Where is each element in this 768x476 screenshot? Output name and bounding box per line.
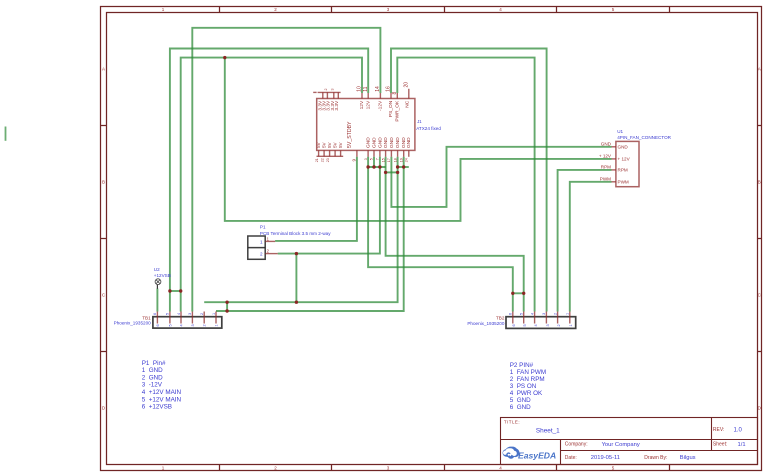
svg-text:4PIN_FAN_CONNECTOR: 4PIN_FAN_CONNECTOR xyxy=(617,135,671,140)
svg-text:5V: 5V xyxy=(327,141,332,148)
svg-text:6: 6 xyxy=(156,324,160,326)
J1 top pin stubs (10,11,14,16,8) xyxy=(362,89,409,99)
svg-text:6 GND: 6 GND xyxy=(510,404,531,411)
svg-text:4: 4 xyxy=(534,324,538,326)
wire 5VSB: ATX pin9 to P1 pin1 xyxy=(275,157,357,241)
J1 top pin numbers xyxy=(357,82,410,95)
wire GND: ATX gnd pin to TB2 pin6 xyxy=(368,157,513,312)
TB2 pin names inside xyxy=(512,324,573,326)
wire GND: ATX gnd pin to P1 pin2 xyxy=(278,157,380,254)
svg-text:Company:: Company: xyxy=(565,442,588,448)
terminal block TB2 body xyxy=(506,317,576,329)
J1 bottom-left 5V pin comb xyxy=(317,150,344,156)
P1 pin numbers xyxy=(267,236,270,253)
wire -12V net: ATX pin14 to TB1 pin3 xyxy=(192,28,380,312)
svg-text:9: 9 xyxy=(352,159,357,162)
svg-text:3 PS ON: 3 PS ON xyxy=(510,383,537,390)
svg-text:B: B xyxy=(758,180,761,185)
svg-text:4 +12V MAIN: 4 +12V MAIN xyxy=(142,389,182,396)
svg-text:+ 12V: + 12V xyxy=(599,153,612,158)
svg-text:U2: U2 xyxy=(154,267,160,272)
svg-text:3: 3 xyxy=(546,324,550,326)
svg-text:+ 12V: + 12V xyxy=(618,157,631,162)
wire PWR_OK: ATX pin8 to TB2 pin4 xyxy=(397,58,534,312)
svg-text:PCB Terminal Block 3.5 mm 2-wa: PCB Terminal Block 3.5 mm 2-way xyxy=(260,231,331,236)
wire GND: ATX gnd pin to U1 GND pin xyxy=(391,147,611,207)
svg-text:3: 3 xyxy=(364,158,368,160)
svg-text:2: 2 xyxy=(203,324,207,326)
svg-text:2: 2 xyxy=(553,313,557,315)
svg-text:11: 11 xyxy=(363,86,369,91)
TB1 pin numbers above xyxy=(153,313,216,315)
svg-text:GND: GND xyxy=(383,137,389,148)
svg-text:A: A xyxy=(758,67,761,72)
wire +12V branch to U1 +12V pin xyxy=(225,58,612,221)
svg-text:TB2: TB2 xyxy=(496,316,505,321)
svg-text:2 GND: 2 GND xyxy=(142,374,163,381)
svg-text:GND: GND xyxy=(406,137,412,148)
node +12V branch on wire C xyxy=(223,56,226,59)
svg-text:1: 1 xyxy=(569,324,573,326)
svg-text:P1 Pin#: P1 Pin# xyxy=(142,360,166,367)
svg-text:2019-05-11: 2019-05-11 xyxy=(591,455,620,461)
svg-text:3: 3 xyxy=(188,313,192,315)
svg-text:GND: GND xyxy=(401,137,407,148)
svg-text:3: 3 xyxy=(191,324,195,326)
svg-text:1 FAN PWM: 1 FAN PWM xyxy=(510,369,546,376)
node GND rail meets P1 drop xyxy=(295,301,298,304)
wire GND stub pin to bus xyxy=(373,157,375,167)
svg-text:1: 1 xyxy=(566,313,570,315)
J1 inside top labels (rotated) xyxy=(318,100,411,122)
wire +12V net: ATX pin10 to TB1 pin4 xyxy=(181,58,362,312)
svg-text:4: 4 xyxy=(530,313,534,315)
TB2 pin numbers above xyxy=(509,313,570,315)
svg-text:NC: NC xyxy=(405,100,411,107)
svg-text:1/1: 1/1 xyxy=(738,442,746,448)
wire GND: ATX gnd pin to TB1 pin2 xyxy=(204,157,397,302)
svg-text:GND: GND xyxy=(601,141,612,146)
svg-text:2: 2 xyxy=(260,251,263,256)
wire U2 flag to TB1 pin6 xyxy=(156,289,158,312)
svg-text:8: 8 xyxy=(392,92,398,95)
svg-text:20: 20 xyxy=(404,82,410,88)
svg-text:Sheet_1: Sheet_1 xyxy=(536,428,560,435)
connector U1 body xyxy=(616,141,639,186)
svg-text:5 GND: 5 GND xyxy=(510,397,531,404)
svg-text:23: 23 xyxy=(326,158,330,162)
TB1 pin stubs xyxy=(157,312,216,324)
J1 pin numbers 2,3 (top-left) xyxy=(324,89,334,91)
svg-text:7: 7 xyxy=(376,158,380,160)
wire PS_ON: ATX pin16 to TB2 pin3 xyxy=(391,49,547,312)
J1 bottom-left 5V labels inside xyxy=(316,141,343,148)
svg-text:REV:: REV: xyxy=(713,427,724,433)
svg-text:5V: 5V xyxy=(333,141,338,148)
svg-text:5V: 5V xyxy=(316,141,321,148)
svg-text:GND: GND xyxy=(395,137,401,148)
node GND rail x227 bottom xyxy=(225,309,228,312)
node GND bus1 dots xyxy=(366,165,369,168)
svg-text:1 GND: 1 GND xyxy=(142,367,163,374)
svg-text:A: A xyxy=(102,67,105,72)
wire jog TB2 pins 5-6 xyxy=(513,292,524,294)
svg-text:5V_STDBY: 5V_STDBY xyxy=(347,121,353,148)
node TB1 jog pin5 xyxy=(168,289,171,292)
svg-text:J1: J1 xyxy=(417,119,422,124)
svg-text:2: 2 xyxy=(200,313,204,315)
wire +12V net: ATX pin11 to TB1 pin5 xyxy=(170,49,368,312)
terminal block TB1 body xyxy=(153,317,222,328)
P1 pin names inside xyxy=(260,240,263,257)
svg-text:5V: 5V xyxy=(322,141,327,148)
J1 GND pin stubs bottom xyxy=(368,150,409,156)
svg-text:GND: GND xyxy=(618,145,629,150)
node TB2 jog pin5 xyxy=(522,292,525,295)
svg-text:6: 6 xyxy=(153,313,157,315)
wire GND branch P1 pin2 down to TB1 bus xyxy=(295,254,297,303)
text block P1 pin list xyxy=(142,360,182,411)
svg-text:-12V: -12V xyxy=(378,100,384,111)
svg-text:RPM: RPM xyxy=(601,164,611,169)
wire GND: ATX gnd pin to TB2 pin5 xyxy=(386,157,524,312)
svg-text:1.0: 1.0 xyxy=(734,428,743,434)
svg-text:GND: GND xyxy=(377,137,383,148)
svg-text:TITLE:: TITLE: xyxy=(504,420,520,425)
svg-text:Phoenix_1935200: Phoenix_1935200 xyxy=(467,321,504,326)
svg-text:2: 2 xyxy=(324,89,328,91)
svg-text:14: 14 xyxy=(375,86,381,92)
wire GND jumper between TB1 pin1/pin2 rails xyxy=(226,302,228,311)
svg-text:PWM: PWM xyxy=(600,176,611,181)
node TB2 jog pin6 xyxy=(511,292,514,295)
wire GND bus3 under ATX xyxy=(398,166,409,168)
svg-text:5: 5 xyxy=(520,313,524,315)
stray wire segment at far left xyxy=(5,127,7,141)
wire GND bus2 under ATX xyxy=(386,171,398,173)
svg-text:1: 1 xyxy=(212,313,216,315)
P1 pin stubs xyxy=(265,241,278,253)
svg-text:Bilgus: Bilgus xyxy=(680,455,696,461)
svg-text:22: 22 xyxy=(321,158,325,162)
EasyEDA logo xyxy=(503,447,557,461)
svg-text:3: 3 xyxy=(542,313,546,315)
TB1 pin names inside xyxy=(156,324,219,326)
svg-text:4: 4 xyxy=(179,324,183,326)
svg-text:P2 PIN#: P2 PIN# xyxy=(510,362,534,369)
svg-text:GND: GND xyxy=(371,137,377,148)
J1 5V_STDBY pin stub xyxy=(356,150,358,156)
svg-text:6 +12VSB: 6 +12VSB xyxy=(142,404,172,411)
svg-text:24: 24 xyxy=(405,158,409,162)
svg-text:U1: U1 xyxy=(617,129,623,134)
svg-text:Phoenix_1935200: Phoenix_1935200 xyxy=(114,321,151,326)
svg-text:RPM: RPM xyxy=(618,168,628,173)
svg-text:2: 2 xyxy=(557,324,561,326)
svg-text:Drawn By:: Drawn By: xyxy=(644,455,667,461)
U1 pin names inside xyxy=(618,145,631,185)
svg-text:10: 10 xyxy=(357,86,363,92)
svg-text:17: 17 xyxy=(387,158,391,162)
node GND bus2 dots xyxy=(384,171,387,174)
svg-text:3 -12V: 3 -12V xyxy=(142,382,163,389)
svg-text:GND: GND xyxy=(389,137,395,148)
svg-text:1: 1 xyxy=(260,240,263,245)
svg-text:5: 5 xyxy=(523,324,527,326)
netflag U2 circle-X xyxy=(155,279,161,289)
svg-text:6: 6 xyxy=(512,324,516,326)
svg-text:+12VSB: +12VSB xyxy=(154,273,171,278)
connector P1 body xyxy=(248,236,265,259)
svg-text:5 +12V MAIN: 5 +12V MAIN xyxy=(142,396,182,403)
svg-text:18: 18 xyxy=(393,158,397,162)
text block P2 pin list xyxy=(510,362,546,411)
svg-text:5V: 5V xyxy=(338,141,343,148)
J1 top-left 3.3V pin comb xyxy=(313,92,340,98)
pin 20 NC stub xyxy=(408,89,410,99)
connector J1 body xyxy=(317,99,415,151)
wire GND: ATX gnd pin to TB1 pin1 xyxy=(216,157,404,311)
svg-text:6: 6 xyxy=(509,313,513,315)
svg-text:PWM: PWM xyxy=(618,180,629,185)
wire jog TB1 pins 4-5 xyxy=(170,290,181,292)
node GND bus3 dots xyxy=(396,165,399,168)
TB2 pin stubs xyxy=(513,312,570,324)
svg-text:Your Company: Your Company xyxy=(602,442,640,448)
svg-text:PWR_OK: PWR_OK xyxy=(395,100,401,122)
wire RPM: U1 to TB2 pin2 xyxy=(558,170,612,312)
node P1 pin2 branch xyxy=(295,252,298,255)
svg-text:ATX24 fixed: ATX24 fixed xyxy=(416,126,441,131)
svg-text:3.3V: 3.3V xyxy=(334,100,340,111)
J1 GND labels inside xyxy=(366,137,413,148)
svg-text:12V: 12V xyxy=(359,100,365,109)
wire PWM: U1 to TB2 pin1 xyxy=(570,182,612,312)
svg-text:P1: P1 xyxy=(260,224,266,229)
U1 pin stubs xyxy=(612,147,616,182)
wire GND bus1 under ATX xyxy=(368,166,386,168)
node GND rail x227 top xyxy=(225,301,228,304)
svg-text:5: 5 xyxy=(168,324,172,326)
svg-text:5: 5 xyxy=(370,158,374,160)
svg-text:B: B xyxy=(102,180,105,185)
svg-text:PS_ON: PS_ON xyxy=(388,100,394,117)
svg-text:1: 1 xyxy=(214,324,218,326)
svg-text:15: 15 xyxy=(381,158,385,162)
J1 GND pin numbers below xyxy=(364,158,409,162)
svg-text:Date:: Date: xyxy=(565,455,577,461)
svg-text:GND: GND xyxy=(366,137,372,148)
svg-text:2 FAN RPM: 2 FAN RPM xyxy=(510,376,545,383)
svg-text:19: 19 xyxy=(399,158,403,162)
svg-text:4 PWR OK: 4 PWR OK xyxy=(510,390,543,397)
svg-text:21: 21 xyxy=(315,158,319,162)
node TB1 jog pin4 xyxy=(179,289,182,292)
J1 bottom-left pin numbers xyxy=(315,158,330,162)
svg-text:Sheet:: Sheet: xyxy=(713,442,727,448)
svg-text:4: 4 xyxy=(177,313,181,315)
svg-text:5: 5 xyxy=(166,313,170,315)
svg-text:EasyEDA: EasyEDA xyxy=(518,451,556,461)
svg-text:3: 3 xyxy=(330,89,334,91)
U1 net labels outside xyxy=(599,141,612,181)
svg-text:16: 16 xyxy=(386,86,392,92)
svg-text:12V: 12V xyxy=(365,100,371,109)
